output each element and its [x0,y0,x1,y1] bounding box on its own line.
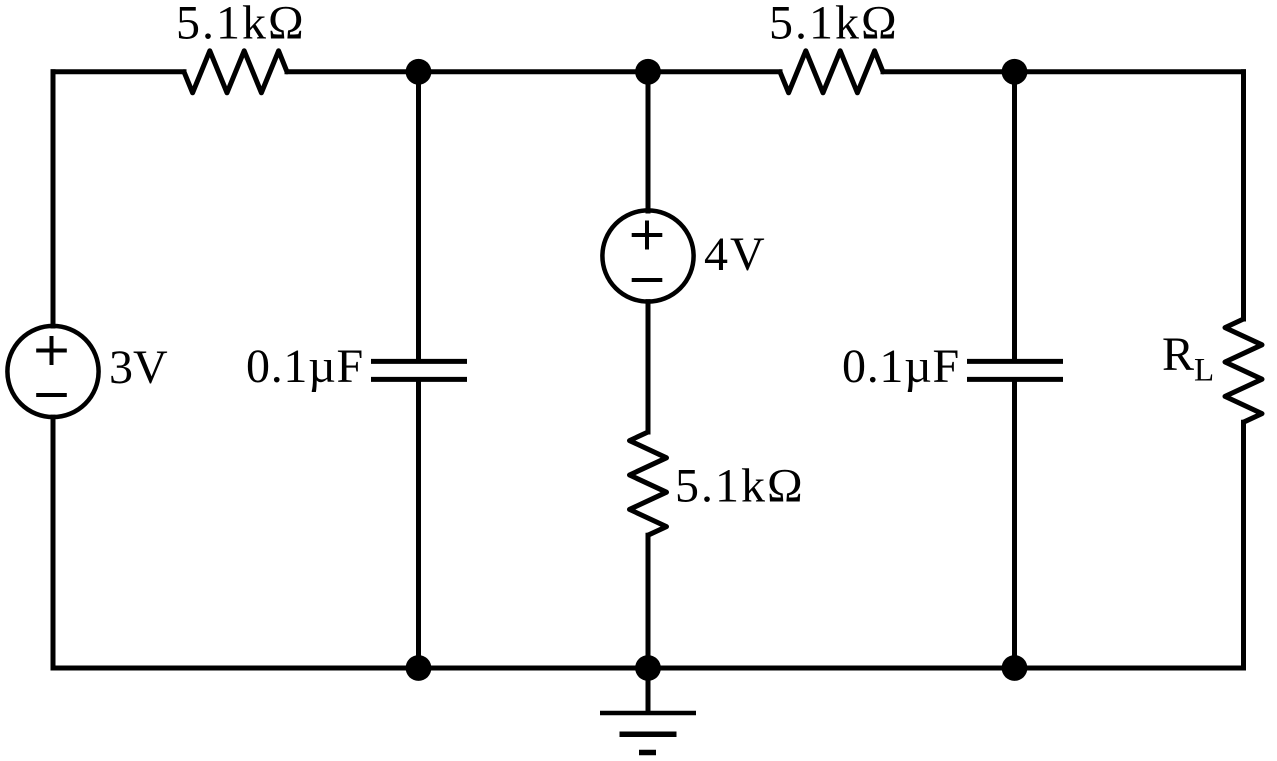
node D junction dot bottom-left [406,655,432,681]
ground bar 1 [600,711,696,716]
voltage source V1 3V circle [7,326,98,417]
node E ground junction dot bottom-middle [635,655,661,681]
svg-text:5.1kΩ: 5.1kΩ [675,460,805,513]
capacitor C2 bottom plate [967,377,1063,382]
ground bar 3 [639,750,656,756]
capacitor C1 top plate [371,359,467,364]
voltage source V2 4V circle [602,210,693,301]
svg-text:0.1µF: 0.1µF [246,340,364,393]
wire capacitor C2 top stem [1012,72,1017,359]
capacitor C2 top plate [967,359,1063,364]
node F junction dot bottom-right [1002,655,1028,681]
wire 4V source top stem [646,72,651,211]
resistor RL load zigzag vertical [1225,319,1262,422]
wire right side upper vertical [1241,72,1246,319]
V2 minus sign [632,278,663,282]
wire top-middle horizontal [287,69,780,74]
V2 plus sign [632,221,663,250]
resistor R3 5.1kOhm middle vertical zigzag [630,432,667,535]
wire capacitor C1 bottom stem [416,382,421,668]
resistor R1 5.1kOhm top-left zigzag [184,51,287,93]
wire top-right horizontal [883,69,1244,74]
svg-text:0.1µF: 0.1µF [842,340,960,393]
V1 minus sign [36,393,67,397]
node C junction dot top-right [1002,59,1028,85]
svg-text:4V: 4V [704,228,767,281]
svg-text:5.1kΩ: 5.1kΩ [769,0,899,50]
wire left side upper vertical [51,72,56,326]
svg-text:3V: 3V [109,341,168,394]
wire R3 to ground node vertical [646,535,651,668]
capacitor C1 bottom plate [371,377,467,382]
wire top-left horizontal [53,69,184,74]
resistor R2 5.1kOhm top-right zigzag [780,51,883,93]
wire right side lower vertical [1241,422,1246,668]
ground bar 2 [620,732,677,738]
wire left side lower vertical [51,417,56,668]
V1 plus sign [36,336,67,365]
node B junction dot top-middle [635,59,661,85]
wire capacitor C2 bottom stem [1012,382,1017,668]
wire bottom horizontal [53,666,1244,671]
wire ground stem [646,668,651,713]
svg-text:5.1kΩ: 5.1kΩ [176,0,306,50]
node A junction dot top-left [406,59,432,85]
wire 4V to R3 vertical [646,302,651,432]
wire capacitor C1 top stem [416,72,421,359]
